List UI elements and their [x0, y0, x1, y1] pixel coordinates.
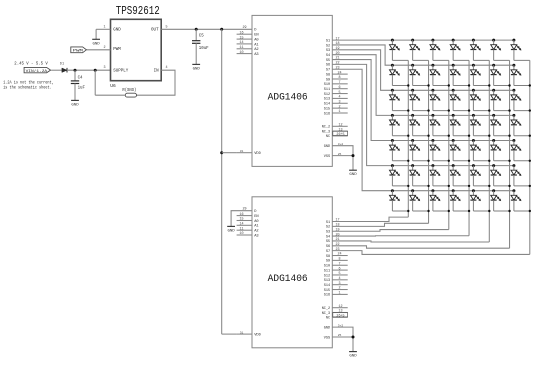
- svg-text:12: 12: [338, 124, 342, 128]
- pin 2 PWM wire: [87, 49, 111, 51]
- svg-text:16: 16: [239, 213, 243, 217]
- svg-text:TPS92612: TPS92612: [116, 5, 160, 18]
- junction VDD U7: [220, 151, 223, 154]
- svg-text:4: 4: [165, 66, 167, 70]
- LED D46: [491, 114, 511, 137]
- wire row 1 from U7 S1: [332, 39, 514, 41]
- svg-text:2: 2: [338, 287, 340, 291]
- LED D33: [430, 89, 450, 112]
- svg-text:GND: GND: [71, 103, 79, 107]
- pin 1 GND wire: [96, 28, 110, 30]
- svg-text:S8: S8: [326, 255, 330, 259]
- svg-text:2: 2: [338, 105, 340, 109]
- svg-text:24: 24: [337, 71, 341, 75]
- svg-text:4: 4: [338, 96, 340, 100]
- svg-text:20: 20: [335, 52, 339, 56]
- svg-text:29: 29: [242, 26, 246, 30]
- wire RSNS to supply junction: [95, 94, 125, 96]
- svg-text:A2: A2: [254, 48, 258, 52]
- LED D35: [470, 89, 490, 112]
- diode D1: [62, 68, 67, 72]
- svg-text:U6: U6: [110, 83, 116, 89]
- svg-text:S15: S15: [324, 289, 330, 293]
- svg-text:15: 15: [239, 218, 243, 222]
- wire row 5 from U7 S5: [332, 60, 514, 141]
- svg-text:14: 14: [239, 223, 243, 227]
- wire column 6 to U8 S6: [332, 246, 509, 248]
- svg-text:S16: S16: [324, 112, 330, 116]
- LED D71: [389, 189, 409, 212]
- svg-text:S14: S14: [324, 103, 330, 107]
- svg-text:11: 11: [239, 227, 243, 231]
- wire column 2 to U8 S2: [332, 223, 428, 226]
- svg-text:NC_3: NC_3: [322, 130, 330, 134]
- svg-text:S1: S1: [326, 221, 330, 225]
- junction C4 tap: [74, 69, 77, 72]
- svg-text:10: 10: [239, 51, 243, 55]
- ground below C5: [192, 63, 200, 65]
- LED D66: [491, 164, 511, 187]
- svg-text:S4: S4: [326, 54, 330, 58]
- LED D76: [491, 189, 511, 212]
- LED D75: [470, 189, 490, 212]
- svg-text:4: 4: [338, 277, 340, 281]
- svg-text:20: 20: [335, 233, 339, 237]
- svg-text:2.45 V - 5.5 V: 2.45 V - 5.5 V: [14, 61, 48, 67]
- svg-text:8: 8: [338, 258, 340, 262]
- svg-text:S9: S9: [326, 78, 330, 82]
- svg-text:31: 31: [240, 150, 244, 153]
- power flag VIN/1.2A: [24, 67, 50, 72]
- svg-text:S7: S7: [326, 69, 330, 73]
- wire row 6 from U7 S6: [332, 64, 514, 165]
- LED D72: [410, 189, 430, 212]
- svg-text:R(SNS): R(SNS): [122, 88, 136, 93]
- LED D63: [430, 164, 450, 187]
- svg-text:C4: C4: [78, 76, 83, 80]
- wire GND VSS of U7 to ground: [332, 146, 353, 170]
- svg-text:PWM: PWM: [73, 49, 84, 53]
- svg-text:NC_3: NC_3: [322, 312, 330, 316]
- svg-text:SUPPLY: SUPPLY: [113, 70, 129, 74]
- svg-text:S2: S2: [326, 44, 330, 48]
- LED D41: [389, 114, 409, 137]
- svg-text:S8: S8: [326, 73, 330, 77]
- op-amp U7 ADG1406 body: [252, 15, 332, 166]
- LED D65: [470, 164, 490, 187]
- LED D55: [470, 139, 490, 162]
- wire to U7 VDD: [222, 152, 237, 154]
- wire OUT net vertical to VDD pins: [220, 28, 223, 31]
- svg-text:S16: S16: [324, 294, 330, 298]
- svg-text:A1: A1: [254, 43, 259, 47]
- svg-text:8: 8: [338, 76, 340, 80]
- svg-text:26+5: 26+5: [336, 315, 344, 319]
- ground at U8 supply pins: [349, 351, 357, 353]
- svg-text:22: 22: [335, 62, 339, 66]
- svg-text:PWM: PWM: [113, 48, 121, 52]
- svg-text:24: 24: [337, 253, 341, 257]
- wire column 1 to U8 S1: [332, 217, 408, 221]
- wire row 2 from U7 S2: [332, 45, 514, 65]
- svg-text:S3: S3: [326, 231, 330, 235]
- svg-text:VDD: VDD: [254, 334, 261, 338]
- svg-text:GND: GND: [349, 355, 357, 359]
- capacitor C5: [195, 28, 198, 31]
- svg-text:18: 18: [335, 42, 339, 46]
- svg-text:26+5: 26+5: [336, 133, 344, 137]
- svg-text:1: 1: [338, 110, 340, 114]
- svg-text:7: 7: [338, 81, 340, 85]
- svg-text:S4: S4: [326, 235, 330, 239]
- svg-text:NC: NC: [326, 317, 330, 321]
- pin 5 OUT wire: [161, 28, 252, 30]
- svg-text:21: 21: [335, 238, 339, 242]
- svg-text:23: 23: [335, 66, 339, 70]
- svg-text:5: 5: [338, 272, 340, 276]
- svg-text:1: 1: [338, 292, 340, 296]
- svg-text:S11: S11: [324, 88, 330, 92]
- wire net VIN to diode: [51, 69, 62, 71]
- LED D12: [410, 39, 429, 61]
- LED D53: [430, 139, 450, 162]
- svg-text:A3: A3: [254, 234, 258, 238]
- svg-text:A0: A0: [254, 220, 258, 224]
- svg-text:S15: S15: [324, 107, 330, 111]
- LED D73: [430, 189, 450, 212]
- svg-text:NC: NC: [326, 135, 330, 139]
- svg-text:S10: S10: [324, 83, 330, 87]
- svg-text:13: 13: [338, 128, 342, 132]
- svg-text:S5: S5: [326, 59, 330, 63]
- svg-text:17: 17: [335, 37, 339, 41]
- svg-text:10: 10: [239, 232, 243, 236]
- svg-text:A2: A2: [254, 230, 258, 234]
- svg-text:NC_2: NC_2: [322, 307, 330, 311]
- svg-text:S14: S14: [324, 284, 330, 288]
- svg-text:ADG1406: ADG1406: [268, 91, 308, 103]
- LED D17: [511, 39, 530, 61]
- LED D74: [450, 189, 470, 212]
- svg-text:GND: GND: [324, 326, 330, 330]
- svg-text:S6: S6: [326, 64, 330, 68]
- LED D21: [389, 64, 409, 87]
- LED D64: [450, 164, 470, 187]
- wire column bus 1: [407, 60, 409, 217]
- svg-text:14: 14: [239, 41, 243, 45]
- svg-text:22: 22: [335, 243, 339, 247]
- svg-text:7: 7: [338, 262, 340, 266]
- svg-text:A1: A1: [254, 225, 259, 229]
- svg-text:D1: D1: [60, 63, 64, 67]
- junction RSNS tap: [94, 69, 97, 72]
- LED D14: [450, 39, 469, 61]
- svg-text:C5: C5: [199, 35, 204, 39]
- LED D16: [491, 39, 510, 61]
- svg-text:S12: S12: [324, 274, 330, 278]
- LED D25: [470, 64, 490, 87]
- wire row 3 from U7 S3: [332, 50, 514, 90]
- wire column 5 to U8 S5: [332, 241, 489, 242]
- svg-text:1uF: 1uF: [78, 87, 86, 91]
- LED D43: [430, 114, 450, 137]
- wire row 7 from U7 S7: [332, 69, 514, 190]
- pin 31 VDD of U8: [237, 333, 252, 335]
- wire column bus 7: [529, 60, 531, 254]
- svg-text:GND: GND: [113, 29, 121, 33]
- wire column bus 6: [509, 60, 511, 248]
- wire U8 D and ground: [231, 211, 252, 227]
- svg-text:S11: S11: [324, 269, 330, 273]
- LED D51: [389, 139, 409, 162]
- wire column bus 2: [428, 60, 430, 223]
- LED D24: [450, 64, 470, 87]
- LED D37: [511, 89, 531, 112]
- wire column bus 5: [488, 60, 490, 242]
- LED D13: [430, 39, 449, 61]
- svg-text:GND: GND: [227, 229, 235, 233]
- op-amp U8 ADG1406 body: [252, 197, 332, 348]
- svg-text:31: 31: [240, 331, 244, 334]
- ground below C4: [71, 99, 79, 101]
- svg-text:S9: S9: [326, 260, 330, 264]
- svg-text:15: 15: [239, 36, 243, 40]
- LED D62: [410, 164, 430, 187]
- svg-text:S6: S6: [326, 245, 330, 249]
- svg-text:12: 12: [338, 305, 342, 309]
- svg-text:5: 5: [338, 91, 340, 95]
- svg-text:GND: GND: [92, 42, 100, 46]
- svg-text:S5: S5: [326, 240, 330, 244]
- svg-text:S2: S2: [326, 226, 330, 230]
- svg-text:6: 6: [338, 86, 340, 90]
- svg-text:1: 1: [103, 26, 105, 30]
- svg-text:18: 18: [335, 224, 339, 228]
- svg-text:S12: S12: [324, 93, 330, 97]
- svg-text:17: 17: [335, 219, 339, 223]
- svg-text:6: 6: [338, 267, 340, 271]
- LED D54: [450, 139, 470, 162]
- LED D52: [410, 139, 430, 162]
- LED D42: [410, 114, 430, 137]
- ground at U8 D pin: [227, 225, 235, 227]
- svg-text:23: 23: [335, 248, 339, 252]
- wire column 3 to U8 S3: [332, 230, 449, 232]
- svg-text:S3: S3: [326, 49, 330, 53]
- capacitor C4: [74, 70, 76, 81]
- svg-text:13: 13: [338, 310, 342, 314]
- wire row 4 from U7 S4: [332, 55, 514, 116]
- svg-text:2: 2: [103, 46, 105, 50]
- svg-text:S7: S7: [326, 250, 330, 254]
- LED D15: [470, 39, 489, 61]
- svg-text:OUT: OUT: [151, 29, 159, 33]
- wire column 7 to U8 S7: [332, 251, 530, 255]
- ground at pin 1: [92, 38, 100, 40]
- LED D44: [450, 114, 470, 137]
- svg-text:21: 21: [335, 57, 339, 61]
- wire diode to SUPPLY pin: [67, 69, 111, 71]
- ground at U7 supply pins: [349, 169, 357, 171]
- LED D67: [511, 164, 531, 187]
- svg-text:GND: GND: [324, 145, 330, 149]
- svg-text:EN: EN: [254, 34, 258, 38]
- svg-text:19: 19: [335, 228, 339, 232]
- svg-text:10uF: 10uF: [199, 47, 209, 51]
- net flag PWM: [71, 47, 87, 53]
- svg-text:S1: S1: [326, 39, 330, 43]
- IC U1 TPS92612 body: [111, 19, 162, 80]
- LED D61: [389, 164, 409, 187]
- svg-text:3: 3: [338, 100, 340, 104]
- svg-text:VIN/1.2A: VIN/1.2A: [26, 69, 48, 74]
- LED D22: [410, 64, 430, 87]
- wire column 4 to U8 S4: [332, 235, 469, 237]
- svg-text:S13: S13: [324, 279, 330, 283]
- wire GND VSS of U8 to ground: [332, 327, 353, 351]
- LED D23: [430, 64, 450, 87]
- svg-text:NC_2: NC_2: [322, 126, 330, 130]
- svg-text:ADG1406: ADG1406: [268, 273, 308, 285]
- LED D34: [450, 89, 470, 112]
- svg-text:is the schematic sheet.: is the schematic sheet.: [3, 84, 52, 90]
- svg-text:11: 11: [239, 46, 243, 50]
- svg-text:EN: EN: [254, 215, 258, 219]
- svg-text:A3: A3: [254, 53, 258, 57]
- svg-text:VSS: VSS: [324, 155, 330, 159]
- svg-text:IN: IN: [154, 70, 160, 74]
- wire column bus 3: [448, 60, 450, 229]
- LED D31: [389, 89, 409, 112]
- svg-text:S10: S10: [324, 265, 330, 269]
- LED D11: [389, 39, 408, 61]
- svg-text:GND: GND: [193, 67, 201, 71]
- svg-text:VDD: VDD: [254, 152, 261, 156]
- svg-text:VSS: VSS: [324, 336, 330, 340]
- LED D47: [511, 114, 531, 137]
- svg-text:3: 3: [103, 66, 105, 70]
- LED D32: [410, 89, 430, 112]
- svg-text:S13: S13: [324, 98, 330, 102]
- pin 31 VDD of U7: [237, 152, 252, 154]
- LED D27: [511, 64, 531, 87]
- LED D77: [511, 189, 531, 212]
- LED D36: [491, 89, 511, 112]
- svg-text:A0: A0: [254, 39, 258, 43]
- LED D56: [491, 139, 511, 162]
- svg-text:5: 5: [165, 26, 167, 30]
- svg-text:GND: GND: [349, 173, 357, 177]
- wire to U8 VDD: [222, 333, 237, 335]
- LED D26: [491, 64, 511, 87]
- svg-text:19: 19: [335, 47, 339, 51]
- LED D45: [470, 114, 490, 137]
- svg-text:16: 16: [239, 31, 243, 35]
- LED D57: [511, 139, 531, 162]
- svg-text:3: 3: [338, 282, 340, 286]
- wire column bus 4: [468, 60, 470, 235]
- pin 4 IN loop wire: [137, 70, 175, 95]
